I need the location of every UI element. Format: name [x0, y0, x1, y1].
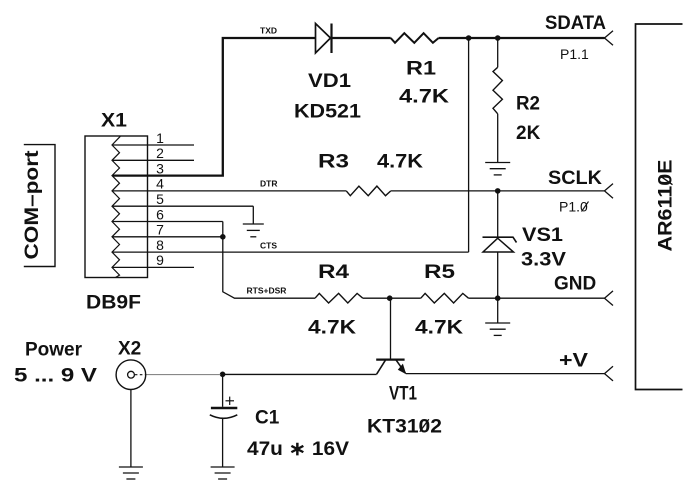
wire X1 pin 5 to ground	[252, 206, 254, 224]
diode VD1	[316, 24, 331, 54]
wire C1 junction to VT1 collector	[223, 373, 377, 375]
ground below R2	[485, 162, 510, 164]
AR6110E module box	[636, 24, 683, 390]
svg-text:2: 2	[156, 145, 164, 161]
COM-port bracket	[24, 145, 55, 267]
wire junction to C1	[222, 374, 224, 407]
junction node on GND line (VS1/ground)	[495, 295, 501, 301]
svg-text:SCLK: SCLK	[548, 168, 602, 189]
wire R3 to SCLK terminal	[391, 190, 605, 192]
+V terminal arrow	[605, 366, 614, 381]
svg-text:4.7K: 4.7K	[308, 318, 356, 339]
resistor R4	[315, 293, 363, 303]
GND terminal arrow	[605, 291, 614, 306]
wire R4/R5 junction to VT1 base	[390, 298, 392, 359]
svg-text:5 ... 9 V: 5 ... 9 V	[14, 366, 97, 387]
svg-text:X1: X1	[101, 111, 127, 132]
svg-text:9: 9	[156, 252, 164, 268]
svg-text:AR6110E: AR6110E	[656, 160, 677, 252]
svg-text:R4: R4	[318, 262, 350, 283]
svg-text:3: 3	[156, 160, 164, 176]
X1 pin 4 wire	[113, 190, 346, 192]
transistor VT1	[376, 360, 406, 375]
P1.0 pin label (slashed zero)	[559, 199, 589, 215]
svg-text:DB9F: DB9F	[86, 293, 141, 314]
SCLK terminal arrow	[605, 184, 614, 199]
svg-text:8: 8	[156, 237, 164, 253]
AR6110E label (slashed zero)	[656, 160, 677, 252]
svg-text:TXD: TXD	[260, 26, 277, 36]
svg-text:6: 6	[156, 206, 164, 222]
junction node to VT1 base	[387, 295, 393, 301]
svg-text:P1.1: P1.1	[560, 46, 589, 62]
zener diode VS1	[483, 237, 517, 242]
svg-text:R5: R5	[424, 262, 456, 283]
X1 pin 7 wire	[113, 236, 223, 238]
svg-text:DTR: DTR	[260, 179, 277, 189]
KT3102 value label (slashed zero)	[367, 417, 442, 438]
svg-text:VT1: VT1	[389, 384, 417, 405]
svg-text:2K: 2K	[516, 123, 541, 144]
wire diode to R1	[332, 37, 391, 39]
capacitor C1 (polarized)	[210, 397, 238, 419]
wire C1 to ground	[222, 419, 224, 468]
ground below X2	[119, 466, 143, 468]
svg-text:COM–port: COM–port	[22, 150, 43, 260]
wire X2 to C1 junction (faint)	[146, 374, 221, 376]
svg-text:R3: R3	[318, 152, 349, 173]
svg-text:P1.0: P1.0	[559, 199, 588, 215]
X1 pin 6 wire	[113, 221, 223, 223]
svg-text:KD521: KD521	[294, 102, 361, 123]
wire R5 to GND terminal	[469, 297, 605, 299]
svg-text:R1: R1	[406, 59, 437, 80]
svg-text:4.7K: 4.7K	[415, 318, 463, 339]
wire R4 to R5	[363, 297, 421, 299]
svg-text:Power: Power	[25, 340, 83, 361]
svg-text:C1: C1	[255, 408, 280, 429]
wire SDATA to R2	[497, 38, 499, 67]
svg-text:KT3102: KT3102	[367, 417, 442, 438]
power connector X2	[116, 360, 146, 390]
junction node on SCLK line (VS1)	[495, 188, 501, 194]
svg-text:R2: R2	[516, 94, 540, 115]
X1 pin 8 wire	[113, 251, 469, 253]
svg-text:1: 1	[156, 130, 164, 146]
ground below GND line	[485, 322, 510, 324]
ground at X1 pin 5	[243, 223, 264, 225]
svg-text:X2: X2	[118, 339, 141, 360]
junction node at C1	[220, 372, 226, 378]
resistor R1	[391, 33, 439, 43]
X1 pin 1 wire	[113, 144, 194, 146]
svg-text:+V: +V	[559, 351, 588, 372]
wire VT1 emitter to +V terminal	[406, 373, 605, 375]
connector X1 contact zigzag	[112, 136, 120, 277]
svg-text:4.7K: 4.7K	[377, 152, 423, 173]
svg-text:7: 7	[156, 222, 164, 238]
junction node on SDATA line (CTS feedback)	[466, 35, 472, 41]
junction node on SDATA line (R2)	[495, 35, 501, 41]
SDATA terminal arrow	[605, 31, 614, 46]
wire SCLK to VS1	[497, 191, 499, 237]
svg-text:SDATA: SDATA	[545, 13, 606, 34]
svg-text:GND: GND	[554, 274, 596, 295]
svg-text:CTS: CTS	[260, 240, 277, 250]
svg-text:VS1: VS1	[522, 225, 563, 246]
resistor R2	[493, 67, 502, 114]
X1 pin 9 wire	[113, 266, 194, 268]
wire X2 to ground	[130, 390, 132, 468]
wire CTS feedback vertical	[468, 38, 470, 252]
resistor R5	[421, 293, 469, 303]
svg-text:3.3V: 3.3V	[521, 250, 566, 271]
connector X1 body	[85, 136, 148, 278]
X1 pin 2 wire	[113, 159, 194, 161]
svg-text:5: 5	[156, 191, 164, 207]
svg-text:VD1: VD1	[308, 71, 351, 92]
svg-text:4: 4	[156, 176, 164, 192]
X1 pin 5 wire	[113, 205, 253, 207]
wire TXD bold path from X1 pin 3	[113, 38, 316, 176]
junction node at pin 7	[220, 234, 226, 240]
wire GND line to ground	[497, 298, 499, 323]
wire R2 to ground	[497, 114, 499, 163]
svg-text:4.7K: 4.7K	[399, 87, 449, 108]
wire VS1 to GND line	[497, 252, 499, 298]
resistor R3	[346, 186, 391, 196]
wire R1 to SDATA terminal	[439, 37, 605, 39]
svg-text:47u ∗ 16V: 47u ∗ 16V	[247, 439, 349, 460]
wire X1 pins 6+7 tie vertical	[223, 222, 315, 299]
svg-text:RTS+DSR: RTS+DSR	[247, 285, 287, 295]
ground below C1	[211, 466, 235, 468]
